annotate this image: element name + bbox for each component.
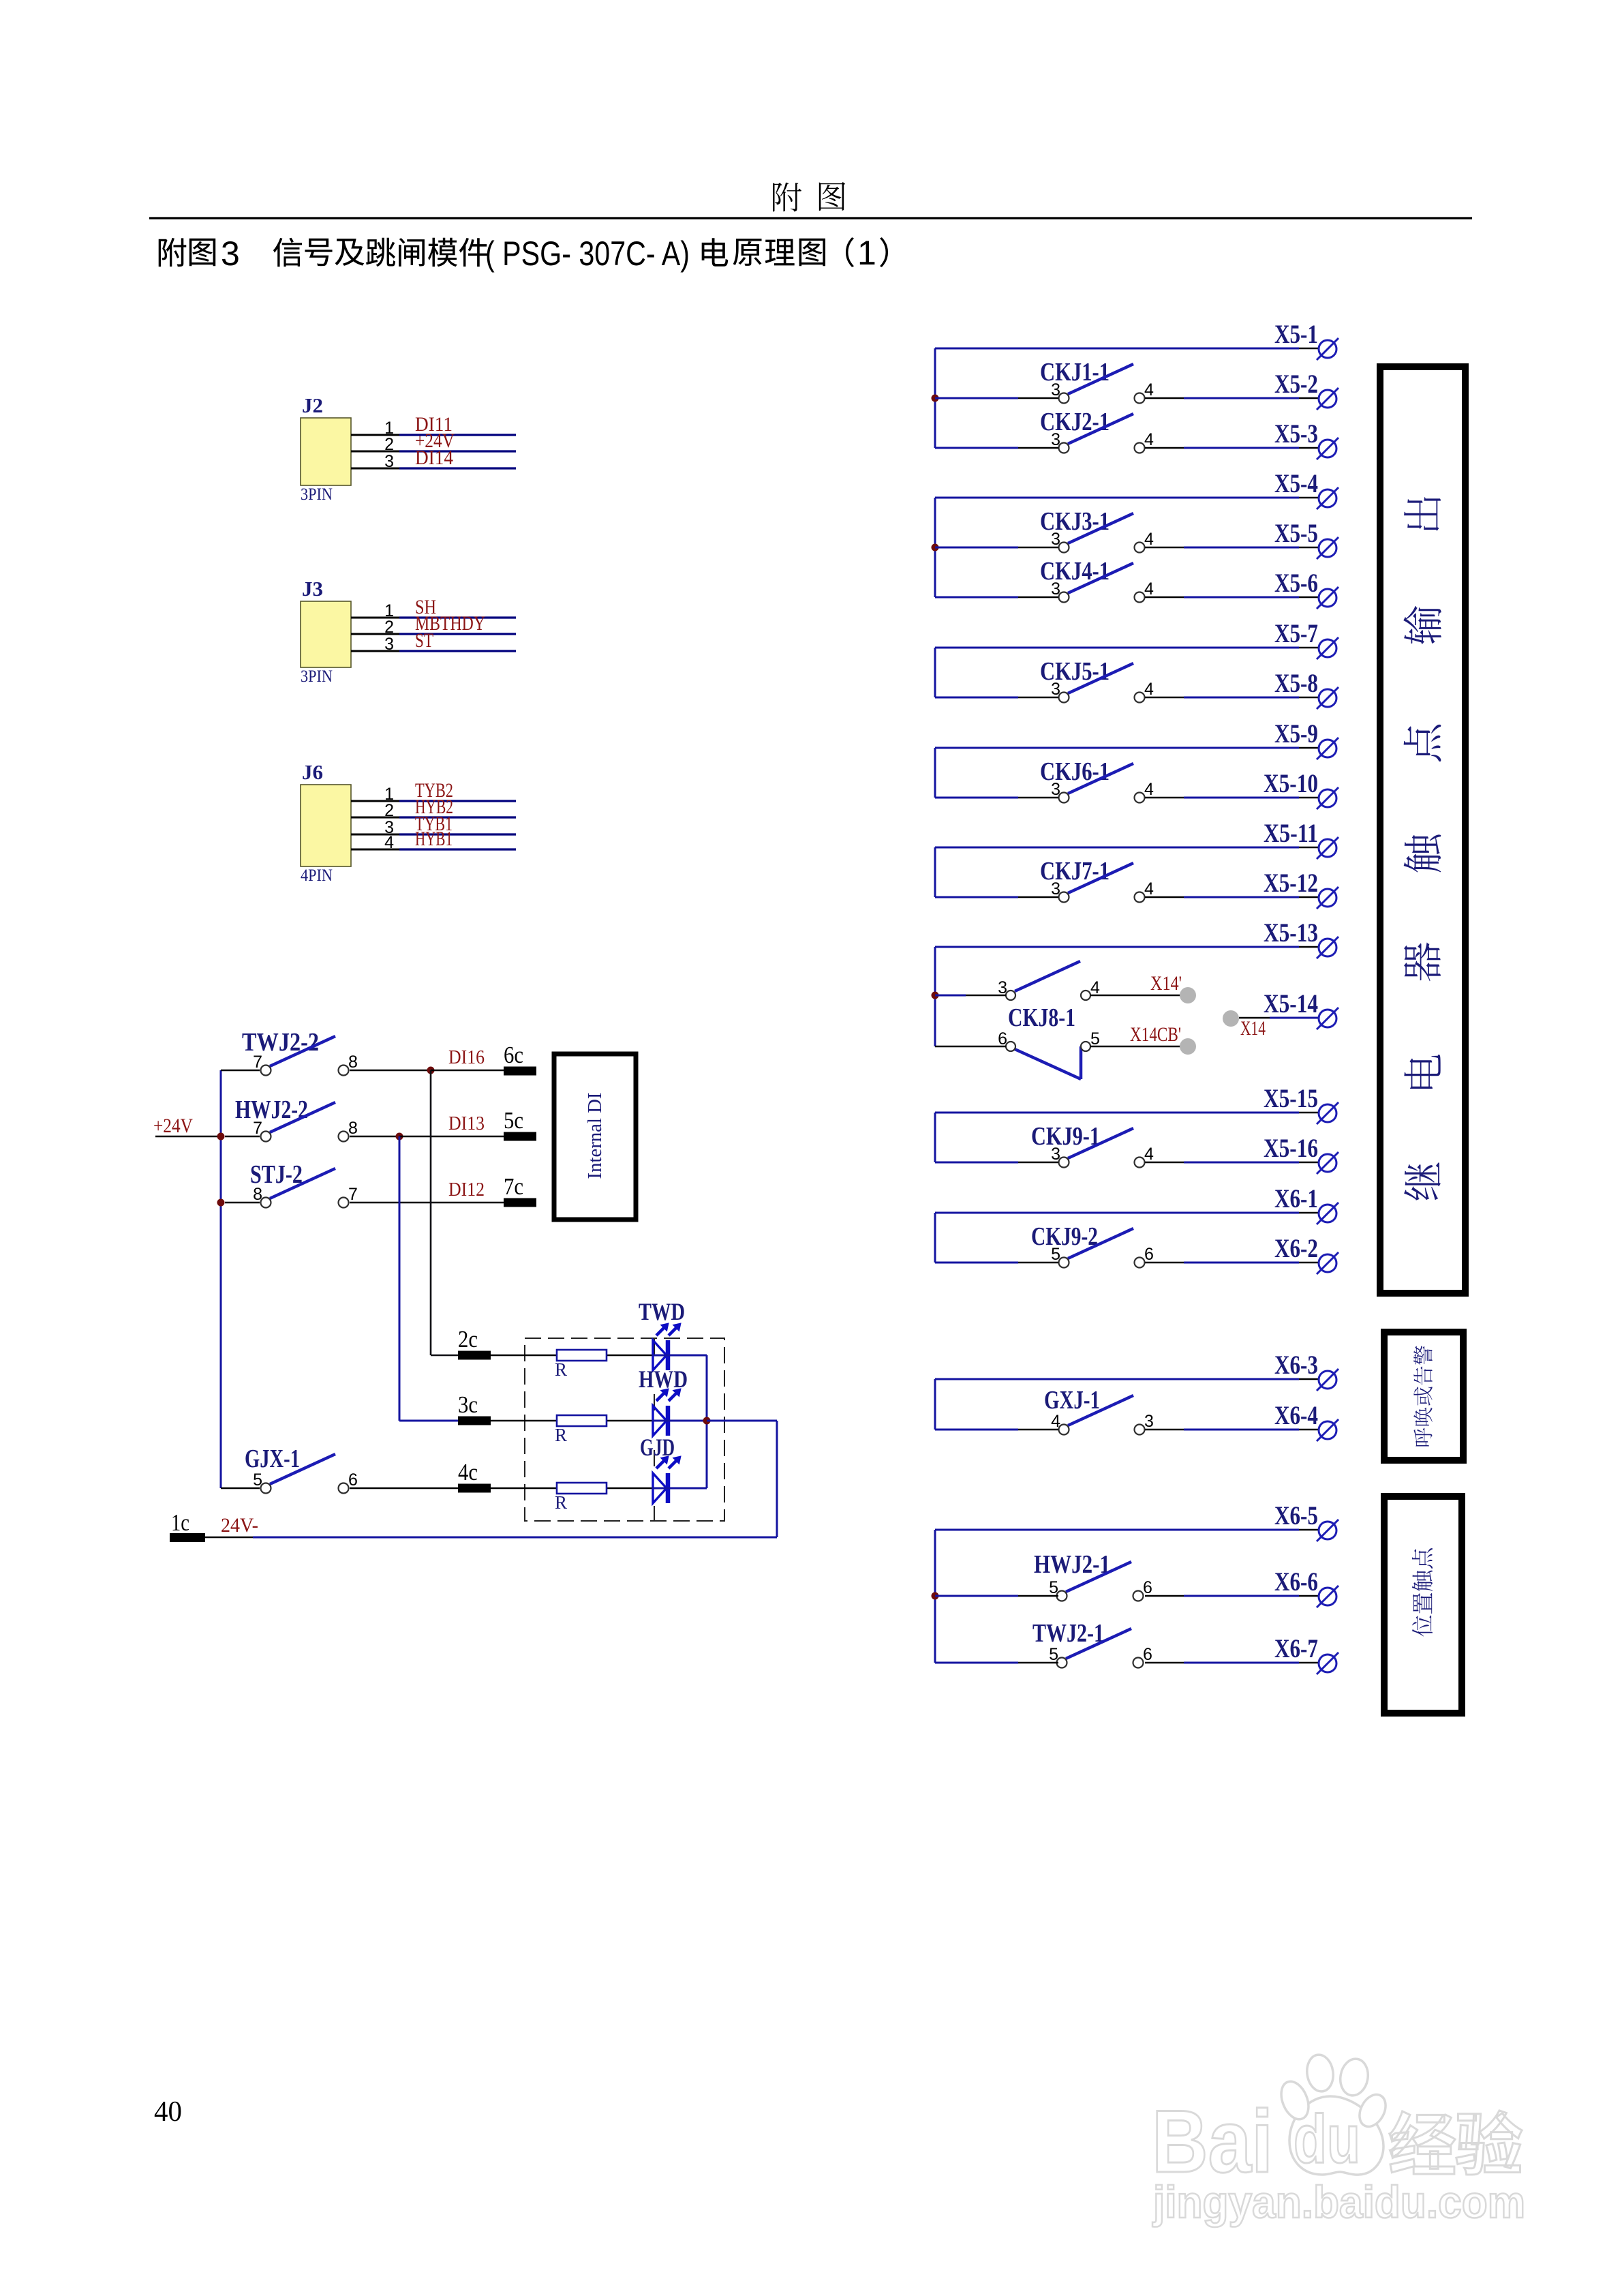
- box 呼唤或告警 call-or-alarm: [1384, 1332, 1463, 1460]
- wire GXJ-1 pin4: [935, 1429, 1018, 1431]
- relay contact GXJ-1: [1044, 1386, 1154, 1435]
- svg-text:TWD: TWD: [639, 1298, 685, 1325]
- wire DI16 node drop to 2c: [430, 1070, 432, 1355]
- indicator dashed box: [525, 1338, 724, 1521]
- svg-text:X5-13: X5-13: [1264, 918, 1318, 948]
- svg-text:GJX-1: GJX-1: [245, 1445, 300, 1473]
- wire 24V- return bottom: [253, 1537, 777, 1539]
- terminal X6-3: [1274, 1350, 1338, 1391]
- wire X6-1 feed: [935, 1212, 1299, 1214]
- terminal 1c: [170, 1509, 205, 1542]
- wire CKJ1-1 pin3: [935, 397, 1018, 399]
- wire rail X5-9-CKJ6-1: [934, 748, 936, 798]
- svg-text:X6-7: X6-7: [1274, 1634, 1318, 1663]
- terminal X5-12: [1264, 868, 1338, 909]
- wire rail X5-13..CKJ8-1: [934, 947, 936, 1046]
- svg-text:TWJ2-1: TWJ2-1: [1032, 1619, 1104, 1648]
- terminal X5-4: [1274, 469, 1338, 509]
- svg-text:du: du: [1294, 2101, 1360, 2177]
- connector J2: [301, 393, 351, 504]
- terminal 2c: [458, 1326, 491, 1360]
- wire GXJ-1 pin3 to X6-4: [1145, 1429, 1184, 1431]
- junction node DI16: [427, 1067, 435, 1074]
- svg-text:7: 7: [348, 1185, 358, 1204]
- wire X6-3 feed: [935, 1378, 1299, 1380]
- wire STJ-2 pin8 to bus: [225, 1202, 260, 1204]
- svg-text:X5-2: X5-2: [1274, 369, 1318, 399]
- relay contact CKJ2-1: [1040, 408, 1154, 453]
- resistor R (TWD): [557, 1350, 607, 1361]
- J2 pin 1 wire / net DI11: [351, 413, 516, 438]
- J6 pin 1 wire / net TYB2: [351, 779, 516, 804]
- wire CKJ4-1 pin3: [935, 596, 1018, 599]
- junction node DI13: [396, 1133, 403, 1141]
- box 继电器触点输出 relay contact output: [1380, 367, 1465, 1293]
- wire TWJ2-1 pin6 to X6-7: [1145, 1662, 1184, 1664]
- svg-text:X6-5: X6-5: [1274, 1501, 1318, 1530]
- svg-text:X5-8: X5-8: [1274, 669, 1318, 698]
- wire TWJ2-2 pin7 to bus: [221, 1070, 260, 1072]
- svg-text:X5-16: X5-16: [1264, 1134, 1318, 1163]
- terminal X6-1: [1274, 1184, 1338, 1224]
- wire GJD cathode to rail: [652, 1487, 707, 1490]
- svg-text:5c: 5c: [504, 1107, 523, 1134]
- terminal X5-5: [1274, 519, 1338, 559]
- svg-text:8: 8: [348, 1119, 358, 1138]
- relay contact TWJ2-2: [242, 1028, 358, 1076]
- terminal X5-15: [1264, 1084, 1338, 1124]
- wire CKJ2-1 pin3: [935, 447, 1018, 449]
- terminal X6-5: [1274, 1501, 1338, 1541]
- svg-text:X5-7: X5-7: [1274, 619, 1318, 648]
- svg-text:X5-9: X5-9: [1274, 719, 1318, 749]
- J3 pin 2 wire / net MBTHDY: [351, 612, 516, 637]
- wire CKJ2-1 pin4 to X5-3: [1145, 447, 1184, 449]
- wire CKJ5-1 pin4 to X5-8: [1145, 697, 1184, 699]
- svg-text:4: 4: [1144, 430, 1154, 449]
- pad X14CB': [1130, 1023, 1196, 1055]
- relay contact CKJ6-1: [1040, 757, 1154, 803]
- svg-text:2c: 2c: [458, 1326, 478, 1353]
- svg-text:X5-1: X5-1: [1274, 320, 1318, 349]
- wire HWJ2-1 pin6 to X6-6: [1145, 1595, 1184, 1597]
- resistor R (GJD): [557, 1483, 607, 1494]
- relay contact CKJ5-1: [1040, 657, 1154, 703]
- svg-text:40: 40: [154, 2096, 182, 2128]
- relay contact CKJ9-2: [1031, 1222, 1154, 1268]
- wire 4c to GJD: [491, 1487, 652, 1490]
- wire CKJ8-1 pin4 to X14': [1090, 995, 1180, 997]
- terminal X5-14: [1264, 989, 1338, 1029]
- svg-text:( PSG- 307C- A): ( PSG- 307C- A): [485, 235, 690, 273]
- wire X5-1 feed: [935, 348, 1299, 350]
- relay contact CKJ8-1: [998, 961, 1100, 1079]
- svg-text:4: 4: [1144, 579, 1154, 599]
- junction +24V / HWJ2-2: [217, 1133, 225, 1141]
- J2 pin 3 wire / net DI14: [351, 447, 516, 471]
- wire CKJ9-1 pin4 to X5-16: [1145, 1162, 1184, 1164]
- svg-text:8: 8: [348, 1053, 358, 1072]
- svg-text:DI12: DI12: [448, 1179, 485, 1200]
- terminal X5-8: [1274, 669, 1338, 709]
- svg-text:CKJ9-1: CKJ9-1: [1031, 1122, 1100, 1151]
- wire rail X5-15-CKJ9-1: [934, 1113, 936, 1162]
- svg-text:X5-10: X5-10: [1264, 769, 1318, 798]
- connector J3: [301, 577, 351, 686]
- wire CKJ6-1 pin4 to X5-10: [1145, 797, 1184, 799]
- wire TWD cathode to rail: [652, 1355, 707, 1357]
- J6 pin 4 wire / net HYB1: [351, 828, 516, 852]
- svg-text:X6-4: X6-4: [1274, 1401, 1318, 1430]
- wire CKJ7-1 pin3: [935, 896, 1018, 898]
- svg-text:3c: 3c: [458, 1391, 478, 1418]
- svg-text:24V-: 24V-: [221, 1514, 258, 1537]
- terminal 5c: [504, 1107, 536, 1141]
- J3 pin 3 wire / net ST: [351, 629, 516, 654]
- terminal 6c: [504, 1042, 536, 1076]
- svg-text:CKJ9-2: CKJ9-2: [1031, 1222, 1098, 1251]
- junction rail CKJ1-1: [932, 395, 939, 402]
- relay contact HWJ2-2: [235, 1096, 358, 1142]
- watermark Baidu Jingyan logo: [1152, 2053, 1391, 2191]
- svg-text:J2: J2: [302, 393, 323, 417]
- wire GJX-1 pin6 to 4c: [350, 1487, 458, 1490]
- svg-text:2: 2: [384, 618, 394, 637]
- terminal X5-16: [1264, 1134, 1338, 1174]
- terminal X5-9: [1274, 719, 1338, 759]
- svg-text:2: 2: [384, 801, 394, 820]
- svg-text:CKJ8-1: CKJ8-1: [1008, 1003, 1075, 1032]
- svg-text:6: 6: [1143, 1645, 1152, 1664]
- wire rail X5-1..CKJ2-1: [934, 348, 936, 448]
- svg-text:3: 3: [221, 235, 240, 273]
- LED HWD: [639, 1365, 688, 1436]
- svg-text:3: 3: [384, 452, 394, 471]
- wire HWJ2-2 pin8 to DI13 node: [350, 1136, 399, 1138]
- svg-text:3PIN: 3PIN: [301, 485, 333, 504]
- wire HWJ2-1 pin5: [935, 1595, 1018, 1597]
- svg-text:GXJ-1: GXJ-1: [1044, 1386, 1100, 1415]
- svg-text:2: 2: [384, 435, 394, 454]
- wire rail X6-5..TWJ2-1: [934, 1530, 936, 1663]
- wire CKJ4-1 pin4 to X5-6: [1145, 596, 1184, 599]
- svg-text:4: 4: [1144, 780, 1154, 799]
- svg-text:X14: X14: [1240, 1017, 1266, 1040]
- junction rail CKJ3-1: [932, 544, 939, 552]
- svg-text:6: 6: [348, 1470, 358, 1490]
- wire CKJ7-1 pin4 to X5-12: [1145, 896, 1184, 898]
- terminal X5-6: [1274, 569, 1338, 609]
- junction LED rail: [703, 1417, 711, 1425]
- terminal X5-1: [1274, 320, 1338, 360]
- svg-text:jingyan.baidu.com: jingyan.baidu.com: [1152, 2177, 1525, 2227]
- junction rail HWJ2-1: [932, 1592, 939, 1600]
- wire HWD cathode to rail: [652, 1420, 707, 1422]
- terminal X5-3: [1274, 419, 1338, 459]
- svg-text:4: 4: [384, 833, 394, 852]
- relay contact HWJ2-1: [1034, 1550, 1152, 1601]
- svg-text:X5-4: X5-4: [1274, 469, 1318, 498]
- wire 3c to HWD: [491, 1420, 652, 1422]
- svg-text:1: 1: [857, 234, 876, 272]
- terminal X5-7: [1274, 619, 1338, 659]
- Internal DI box: [554, 1054, 636, 1220]
- svg-text:R: R: [555, 1425, 567, 1445]
- wire CKJ8-1 pin5 to X14CB': [1090, 1046, 1180, 1048]
- terminal X5-11: [1264, 819, 1338, 859]
- svg-text:4c: 4c: [458, 1459, 478, 1485]
- svg-text:1c: 1c: [171, 1509, 189, 1536]
- J2 pin 2 wire / net +24V: [351, 429, 516, 454]
- svg-text:X5-12: X5-12: [1264, 868, 1318, 898]
- LED GJD: [640, 1434, 681, 1503]
- wire X14 to X5-14: [1239, 1017, 1270, 1019]
- relay contact CKJ9-1: [1031, 1122, 1154, 1168]
- svg-text:X5-6: X5-6: [1274, 569, 1318, 598]
- terminal X6-7: [1274, 1634, 1338, 1674]
- wire GJX-1 pin5 to bus: [221, 1487, 260, 1490]
- relay contact GJX-1: [245, 1445, 358, 1494]
- connector J6: [301, 760, 351, 885]
- LED TWD: [639, 1298, 685, 1370]
- wire rail X5-7-CKJ5-1: [934, 648, 936, 697]
- pad X14: [1223, 1010, 1266, 1040]
- wire X5-13 feed: [935, 946, 1299, 948]
- wire CKJ1-1 pin4 to X5-2: [1145, 397, 1184, 399]
- wire CKJ6-1 pin3: [935, 797, 1018, 799]
- wire X5-9 feed: [935, 747, 1299, 749]
- wire +24V feed: [155, 1136, 221, 1138]
- wire LED cathode rail: [706, 1355, 708, 1488]
- wire STJ-2 pin7 to 7c: [350, 1202, 504, 1204]
- page header 附 图: [773, 182, 845, 211]
- wire rail X6-1-CKJ9-2: [934, 1213, 936, 1263]
- wire CKJ3-1 pin4 to X5-5: [1145, 547, 1184, 549]
- wire 2c to TWD: [491, 1355, 652, 1357]
- terminal 4c: [458, 1459, 491, 1493]
- svg-text:X14CB': X14CB': [1130, 1023, 1181, 1046]
- wire X6-5 feed: [935, 1529, 1299, 1531]
- relay contact TWJ2-1: [1032, 1619, 1152, 1668]
- svg-text:ST: ST: [415, 629, 433, 652]
- relay contact CKJ7-1: [1040, 857, 1154, 903]
- wire node to 5c: [399, 1136, 504, 1138]
- svg-text:3: 3: [384, 635, 394, 654]
- pad X14': [1150, 972, 1196, 1003]
- header rule: [149, 217, 1472, 219]
- terminal X6-2: [1274, 1234, 1338, 1274]
- svg-text:R: R: [555, 1359, 567, 1380]
- wire CKJ3-1 pin3: [935, 547, 1018, 549]
- svg-text:4: 4: [1144, 530, 1154, 549]
- title 附图3 信号及跳闸模件(PSG-307C-A) 电原理图（1）: [159, 234, 888, 273]
- terminal 3c: [458, 1391, 491, 1425]
- svg-text:X6-2: X6-2: [1274, 1234, 1318, 1263]
- svg-text:J6: J6: [302, 760, 323, 784]
- indicator dashed divider: [654, 1338, 655, 1521]
- svg-text:X6-3: X6-3: [1274, 1350, 1318, 1380]
- wire rail X5-11-CKJ7-1: [934, 847, 936, 897]
- J6 pin 2 wire / net HYB2: [351, 796, 516, 820]
- svg-text:R: R: [555, 1492, 567, 1513]
- svg-text:4: 4: [1144, 680, 1154, 699]
- svg-text:J3: J3: [302, 577, 323, 601]
- svg-text:Internal DI: Internal DI: [584, 1093, 606, 1179]
- wire CKJ8-1 pin3: [935, 995, 966, 997]
- wire X5-7 feed: [935, 647, 1299, 649]
- wire X5-11 feed: [935, 847, 1299, 849]
- wire CKJ8-1 pin6: [935, 1046, 1006, 1048]
- wire node to 6c: [431, 1070, 504, 1072]
- junction +24V / STJ-2: [217, 1199, 225, 1207]
- svg-text:4: 4: [1144, 879, 1154, 898]
- svg-text:3: 3: [1144, 1412, 1154, 1431]
- wire CKJ9-2 pin6 to X6-2: [1145, 1262, 1184, 1264]
- wire rail X5-4..CKJ4-1: [934, 498, 936, 597]
- relay contact CKJ1-1: [1040, 358, 1154, 404]
- svg-text:HWJ2-1: HWJ2-1: [1034, 1550, 1110, 1579]
- junction rail CKJ8-1 pin3: [932, 992, 939, 999]
- svg-text:X6-6: X6-6: [1274, 1567, 1318, 1597]
- svg-text:X5-5: X5-5: [1274, 519, 1318, 548]
- wire X5-4 feed: [935, 497, 1299, 499]
- relay contact STJ-2: [250, 1160, 358, 1208]
- svg-text:HYB1: HYB1: [415, 828, 453, 850]
- J3 pin 1 wire / net SH: [351, 596, 516, 620]
- svg-text:X14': X14': [1150, 972, 1182, 995]
- svg-text:DI14: DI14: [415, 447, 453, 469]
- terminal X6-4: [1274, 1401, 1338, 1441]
- wire TWJ2-1 pin5: [935, 1662, 1018, 1664]
- wire DI13 node drop to 3c: [399, 1136, 401, 1421]
- svg-text:X5-11: X5-11: [1264, 819, 1318, 848]
- relay contact CKJ4-1: [1040, 557, 1154, 603]
- resistor R (HWD): [557, 1415, 607, 1426]
- terminal X5-10: [1264, 769, 1338, 809]
- svg-text:6: 6: [1144, 1245, 1154, 1264]
- wire rail X6-3..GXJ-1: [934, 1379, 936, 1430]
- svg-text:7c: 7c: [504, 1173, 523, 1200]
- terminal X5-2: [1274, 369, 1338, 410]
- terminal 7c: [504, 1173, 536, 1207]
- svg-text:6c: 6c: [504, 1042, 523, 1068]
- svg-text:GJD: GJD: [640, 1434, 675, 1461]
- svg-text:6: 6: [1143, 1578, 1152, 1597]
- wire HWJ2-2 pin7 to bus: [225, 1136, 260, 1138]
- svg-text:4: 4: [1144, 380, 1154, 399]
- svg-text:X5-15: X5-15: [1264, 1084, 1318, 1113]
- relay contact CKJ3-1: [1040, 507, 1154, 553]
- box 位置触点 position contacts: [1384, 1496, 1462, 1713]
- terminal X5-13: [1264, 918, 1338, 958]
- wire X5-15 feed: [935, 1112, 1299, 1114]
- J6 pin 3 wire / net TYB1: [351, 813, 516, 837]
- svg-text:4: 4: [1144, 1145, 1154, 1164]
- terminal X6-6: [1274, 1567, 1338, 1607]
- svg-text:X5-14: X5-14: [1264, 989, 1318, 1018]
- wire rail to 24V- return: [707, 1420, 777, 1422]
- wire TWJ2-2 pin8 to DI16 node: [350, 1070, 431, 1072]
- svg-text:4PIN: 4PIN: [301, 866, 333, 885]
- wire 1c to return: [205, 1537, 253, 1539]
- svg-text:DI16: DI16: [448, 1047, 485, 1068]
- svg-text:3PIN: 3PIN: [301, 667, 333, 686]
- wire CKJ9-2 pin5: [935, 1262, 1018, 1264]
- wire CKJ9-1 pin3: [935, 1162, 1018, 1164]
- svg-text:X6-1: X6-1: [1274, 1184, 1318, 1213]
- svg-text:DI13: DI13: [448, 1113, 485, 1134]
- svg-text:X5-3: X5-3: [1274, 419, 1318, 449]
- svg-text:+24V: +24V: [153, 1115, 193, 1137]
- wire +24V vertical bus: [220, 1070, 222, 1488]
- wire CKJ5-1 pin3: [935, 697, 1018, 699]
